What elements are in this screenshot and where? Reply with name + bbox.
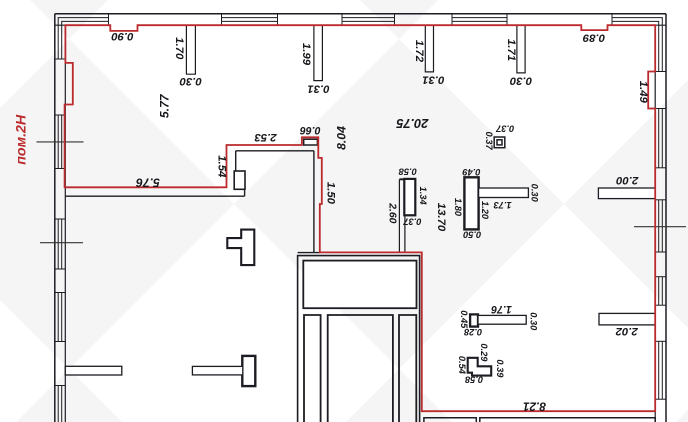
svg-text:0.37: 0.37 [403,217,422,227]
bottom wall segment 2 [480,418,655,422]
svg-text:0.30: 0.30 [179,75,202,87]
window in right wall y 341.3-399.2 [658,341,660,399]
window in left wall y 292.5-341.5 [57,293,59,342]
svg-text:1.34: 1.34 [418,187,428,206]
svg-text:1.71: 1.71 [505,39,517,61]
svg-text:8.21: 8.21 [523,399,546,413]
wall stub from top wall: 1.70/0.30 [186,25,525,80]
stub from left wall [65,366,122,375]
stub 2.00 from right wall [598,188,655,199]
svg-text:1.80: 1.80 [453,198,463,217]
pillar 0.58/1.34 [404,179,415,215]
svg-text:8.04: 8.04 [335,126,349,150]
arm 1.73 [479,188,529,198]
top wall inner line [55,24,111,26]
window wrap at top-right corner [612,18,662,72]
left wall outer line [54,14,56,422]
svg-text:5.77: 5.77 [157,93,171,118]
stub arm 1.76 [478,315,526,324]
window in right wall y 276.7-305.2 [658,277,660,306]
svg-text:0.29: 0.29 [479,343,489,362]
red room outline пом.2Н [65,25,656,411]
shaft channel right [399,315,416,422]
svg-text:1.20: 1.20 [480,201,490,220]
window in top wall x 452.0-507.0 [452,17,507,19]
right wall outer line [665,14,667,422]
small square column 0.37 [494,137,505,148]
svg-text:0.37: 0.37 [495,124,514,134]
svg-text:1.50: 1.50 [324,182,336,205]
svg-text:2.02: 2.02 [615,325,639,337]
svg-text:0.30: 0.30 [509,75,532,87]
interior walls: room below 2.53 line [65,151,319,253]
svg-text:1.73: 1.73 [493,200,512,210]
svg-text:2.60: 2.60 [386,202,397,223]
wall stub 1.99/0.31 [314,25,323,80]
svg-text:1.76: 1.76 [491,303,512,315]
window in left wall y 219.0-269.0 [57,219,59,269]
pillar at bottom T stub [242,356,255,386]
svg-text:0.30: 0.30 [530,184,540,203]
svg-text:0.54: 0.54 [457,356,467,375]
svg-text:0.50: 0.50 [462,229,481,239]
svg-text:0.89: 0.89 [582,32,605,44]
svg-text:0.31: 0.31 [422,74,444,86]
svg-text:20.75: 20.75 [396,116,430,131]
window in left wall y 385.5-423.0 [57,386,59,422]
wall left edge upper [235,151,237,171]
wall stub 1.71/0.30 [517,25,525,73]
window in top wall x 221.5-277.5 [222,17,278,19]
machine room rect [303,261,416,309]
window in top wall x 342.0-394.5 [342,17,395,19]
svg-text:0.58: 0.58 [464,375,483,385]
window in right wall y 108.5-167.8 [658,109,660,168]
svg-text:0.37: 0.37 [484,132,494,151]
svg-text:5.76: 5.76 [136,176,160,190]
svg-text:0.45: 0.45 [459,310,469,329]
svg-text:0.66: 0.66 [300,124,321,136]
svg-text:1.54: 1.54 [216,155,228,178]
wall right edge x=313.9 [313,151,315,253]
stub 2.02 from right wall [599,313,655,325]
svg-text:2.53: 2.53 [254,131,278,143]
svg-text:пом.2Н: пом.2Н [13,114,29,165]
tick mark right wall [634,226,686,228]
svg-text:1.99: 1.99 [300,43,312,66]
svg-text:13.70: 13.70 [435,203,447,232]
dimension labels [111,30,649,414]
stair/elevator core outer wall [298,256,420,422]
svg-text:1.49: 1.49 [637,81,649,104]
svg-text:0.31: 0.31 [307,83,329,95]
svg-text:0.49: 0.49 [462,167,481,177]
square pillar 1.76 stub [470,314,478,326]
shaft channel middle [328,315,393,422]
thin wall 2.60 from pillar to core [399,179,405,252]
shaft channel left [304,315,321,422]
short wall at core top left [298,252,320,254]
black box at 0.66 notch [304,139,318,145]
window in right wall y 199.8-252.0 [658,200,660,252]
svg-text:1.72: 1.72 [413,40,425,63]
svg-text:0.58: 0.58 [398,166,417,176]
svg-text:0.30: 0.30 [529,312,539,331]
window in left wall y 115.0-168.5 [57,115,59,169]
Z column [468,358,492,376]
tick mark left wall lower [40,242,83,244]
right wall inner line [654,25,656,422]
L column [227,230,254,266]
window wrap at top-left corner [58,18,108,59]
horizontal wall y=196.2 [65,195,244,197]
wall top edge y=150.8 [236,150,314,152]
connector tab to y196 wall [244,189,246,196]
stub arm to pillar [192,366,242,375]
bottom wall segment 1 [424,418,476,422]
svg-text:0.39: 0.39 [495,359,505,378]
svg-text:2.00: 2.00 [616,174,640,186]
svg-text:0.90: 0.90 [111,30,134,42]
top wall outer line [55,13,666,15]
left wall inner line [64,25,66,422]
svg-text:1.70: 1.70 [173,37,185,60]
svg-text:0.28: 0.28 [463,327,482,337]
wall stub 1.72/0.31 [425,25,433,72]
tick mark left wall upper [37,141,84,143]
T column 1.80 [464,177,478,229]
duct tab on wall [234,171,245,189]
